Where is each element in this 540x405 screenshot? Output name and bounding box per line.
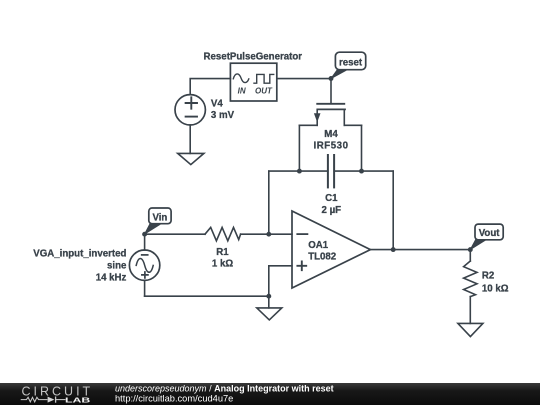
node reset junction <box>329 76 334 81</box>
svg-text:VGA_input_inverted: VGA_input_inverted <box>33 248 126 259</box>
transistor M4 (NMOS IRF530) <box>299 104 361 171</box>
svg-text:1 kΩ: 1 kΩ <box>212 258 233 269</box>
svg-text:OA1: OA1 <box>308 240 329 251</box>
svg-text:reset: reset <box>339 57 363 68</box>
C1 labels <box>322 193 342 216</box>
logo schematic: resistor diode LAB <box>21 397 66 403</box>
ground (below V4) <box>178 153 204 164</box>
svg-text:underscorepseudonym / Analog I: underscorepseudonym / Analog Integrator … <box>115 383 334 393</box>
capacitor C1 <box>328 155 334 187</box>
svg-text:sine: sine <box>107 260 127 271</box>
resistor R1 <box>205 227 241 240</box>
wire Vin to R1 <box>145 233 205 235</box>
ResetPulseGenerator title <box>204 51 303 62</box>
ground (noninverting) <box>257 308 282 320</box>
wire feedback left vertical <box>268 171 270 234</box>
svg-text:10 kΩ: 10 kΩ <box>482 283 509 294</box>
wire top net left segment <box>269 170 328 172</box>
wire Vout to R2 <box>469 250 471 261</box>
svg-text:C1: C1 <box>325 193 338 204</box>
wire feedback right vertical <box>392 171 394 250</box>
block ResetPulseGenerator U1 <box>230 63 276 101</box>
svg-text:IN: IN <box>238 87 246 96</box>
svg-text:ResetPulseGenerator: ResetPulseGenerator <box>204 51 303 62</box>
pin label OUT <box>255 87 273 96</box>
wire source bottom to ground junction <box>145 295 269 297</box>
wire output <box>370 249 470 251</box>
op-amp OA1 <box>292 211 370 288</box>
wire noninverting input <box>269 266 292 296</box>
ground (below R2) <box>458 323 483 336</box>
node Vin junction <box>142 232 147 237</box>
pin label IN <box>238 87 246 96</box>
V4 label <box>211 99 235 122</box>
node junction feedback output <box>391 247 396 252</box>
CircuitLab logo wordmark <box>22 384 94 398</box>
source labels <box>33 248 127 283</box>
sine icon (IN) <box>233 74 249 83</box>
wire V4 bottom to ground <box>189 125 191 153</box>
node junction M4 drain <box>297 169 302 174</box>
wire R1 to opamp <box>241 233 292 235</box>
OA1 labels <box>308 240 336 263</box>
wire reset to gate <box>330 79 332 104</box>
square wave icon (OUT) <box>254 74 274 83</box>
svg-text:LAB: LAB <box>65 395 91 404</box>
opamp minus <box>297 233 307 235</box>
R2 labels <box>482 270 509 294</box>
svg-text:M4: M4 <box>324 129 338 140</box>
opamp plus <box>297 261 306 270</box>
wire V4 top to IN <box>190 79 230 95</box>
svg-text:OUT: OUT <box>255 87 273 96</box>
node junction M4 source <box>359 169 364 174</box>
node flag reset <box>331 52 366 78</box>
footer text <box>115 383 334 403</box>
voltage source V4 <box>175 95 205 125</box>
node flag Vout <box>470 224 503 250</box>
node junction inverting input <box>266 232 271 237</box>
svg-text:IRF530: IRF530 <box>313 141 348 152</box>
wire junction to ground <box>268 296 270 308</box>
sine source VGA_input_inverted <box>129 234 159 296</box>
R1 labels <box>212 247 233 269</box>
wire R2 to ground <box>469 297 471 324</box>
svg-text:14 kHz: 14 kHz <box>96 272 127 283</box>
svg-text:http://circuitlab.com/cud4u7e: http://circuitlab.com/cud4u7e <box>115 393 233 403</box>
svg-text:Vin: Vin <box>152 213 167 224</box>
svg-text:2 µF: 2 µF <box>322 205 342 216</box>
resistor R2 <box>464 261 477 297</box>
svg-text:Vout: Vout <box>479 228 501 239</box>
svg-text:V4: V4 <box>211 99 223 110</box>
node Vout junction <box>468 247 473 252</box>
M4 labels <box>313 129 348 152</box>
wire top net right segment <box>334 170 393 172</box>
svg-text:R1: R1 <box>216 247 229 258</box>
svg-text:TL082: TL082 <box>308 252 336 263</box>
wire OUT to reset node <box>277 78 331 80</box>
svg-text:3 mV: 3 mV <box>211 110 235 121</box>
svg-text:R2: R2 <box>482 270 494 281</box>
node junction noninverting ground <box>266 294 271 299</box>
node flag Vin <box>145 208 171 234</box>
